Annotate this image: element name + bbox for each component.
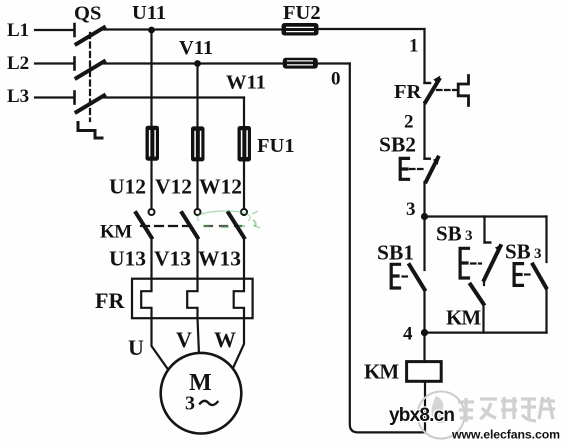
svg-text:W11: W11 [226, 72, 266, 94]
svg-text:SB2: SB2 [379, 133, 416, 157]
svg-text:ybx8.cn: ybx8.cn [389, 405, 454, 426]
svg-text:KM: KM [446, 306, 481, 330]
svg-text:FR: FR [394, 81, 422, 103]
svg-text:L1: L1 [7, 20, 29, 41]
svg-text:3: 3 [534, 246, 542, 262]
svg-text:L3: L3 [7, 86, 29, 107]
svg-text:KM: KM [364, 360, 399, 384]
svg-text:3: 3 [465, 228, 473, 244]
svg-text:U11: U11 [132, 2, 166, 24]
svg-text:W: W [214, 327, 236, 352]
svg-text:FU2: FU2 [283, 2, 321, 24]
svg-text:U13: U13 [109, 247, 146, 271]
svg-text:W13: W13 [198, 247, 241, 271]
svg-text:0: 0 [331, 69, 341, 90]
svg-text:V11: V11 [179, 37, 213, 59]
svg-text:KM: KM [100, 222, 132, 243]
svg-text:www.elecfans.com: www.elecfans.com [451, 428, 560, 442]
svg-text:FU1: FU1 [257, 135, 295, 157]
svg-text:FR: FR [95, 288, 125, 313]
svg-text:4: 4 [403, 324, 413, 345]
svg-text:QS: QS [74, 3, 101, 25]
svg-text:L2: L2 [7, 53, 29, 74]
svg-text:W12: W12 [199, 175, 242, 199]
svg-text:SB: SB [505, 240, 531, 264]
svg-text:SB: SB [436, 222, 462, 246]
svg-text:V: V [176, 327, 192, 352]
svg-text:V13: V13 [154, 247, 191, 271]
svg-text:SB1: SB1 [377, 241, 414, 265]
svg-text:U12: U12 [109, 175, 146, 199]
svg-text:3: 3 [185, 393, 195, 415]
svg-text:3: 3 [406, 199, 416, 220]
svg-text:1: 1 [409, 36, 419, 57]
svg-text:2: 2 [404, 112, 414, 133]
svg-text:U: U [128, 335, 144, 360]
svg-text:V12: V12 [155, 175, 192, 199]
